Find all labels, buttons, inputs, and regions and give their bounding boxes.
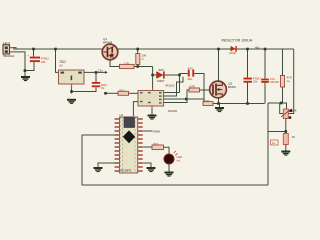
resistor R7 1K bbox=[271, 134, 296, 146]
wire pot bottom bbox=[285, 119, 287, 134]
wire 7812 output bbox=[84, 71, 105, 73]
wire R8 to LED bbox=[164, 147, 170, 154]
potentiometer RV1 bbox=[281, 108, 297, 118]
svg-text:12v: 12v bbox=[98, 69, 103, 73]
junction dot on rail bbox=[136, 48, 139, 51]
junction dot on rail bbox=[54, 48, 57, 51]
ground G8 bbox=[281, 151, 290, 156]
junction dots bbox=[246, 48, 249, 51]
wire U3 HO pin2 bbox=[164, 77, 183, 96]
wire Q2 drain up bbox=[218, 49, 220, 81]
junction dot bbox=[178, 74, 181, 77]
resistor R1 1.2K bbox=[120, 61, 135, 68]
junction dot bbox=[280, 102, 283, 105]
junction dot bbox=[185, 98, 188, 101]
capacitor C1 4700U plates bbox=[27, 54, 40, 63]
resistor R5 10R bbox=[203, 99, 213, 105]
wire U3 COM ground bbox=[151, 106, 153, 110]
wire Q1 collector down bbox=[110, 60, 120, 67]
svg-text:10K: 10K bbox=[292, 109, 297, 113]
ground G3 bbox=[148, 115, 157, 120]
capacitor C2 100U plates bbox=[92, 82, 100, 87]
svg-text:1K: 1K bbox=[292, 135, 296, 139]
wire cap C4 leads bbox=[247, 49, 249, 104]
wire feedback tap bbox=[268, 131, 286, 133]
LED D2 bbox=[164, 151, 183, 164]
wire cap C1 top lead bbox=[33, 49, 35, 57]
regulator U2 7812 bbox=[59, 60, 85, 84]
resistor R2 10K bbox=[136, 54, 147, 65]
wire U1 pwm stub bbox=[143, 130, 152, 132]
svg-text:100UH: 100UH bbox=[229, 51, 236, 55]
svg-text:U2: U2 bbox=[59, 64, 63, 68]
junction dot on rail bbox=[32, 48, 35, 51]
transistor Q1 bbox=[102, 37, 118, 60]
mosfet Q2 bbox=[210, 81, 237, 98]
wire diode cathode to cap bbox=[165, 74, 188, 76]
wire feedback long drop bbox=[267, 103, 269, 185]
wire U1 left gnd branch bbox=[98, 163, 115, 167]
svg-text:1k: 1k bbox=[272, 141, 276, 145]
junction dot bbox=[95, 71, 98, 74]
junction dot bbox=[24, 69, 27, 72]
capacitor C4 4700U plates bbox=[244, 77, 261, 84]
wire node down to U3 vcc bbox=[152, 67, 154, 89]
wire U3 VS pin3 bbox=[164, 98, 204, 100]
svg-text:PWM: PWM bbox=[153, 130, 161, 134]
svg-text:TBLOCK-I2: TBLOCK-I2 bbox=[3, 55, 15, 58]
junction dot bbox=[217, 102, 220, 105]
wire cap C2 branch bbox=[72, 87, 97, 91]
wire U1 to R8 bbox=[143, 146, 152, 148]
wire cap C1 bottom link bbox=[25, 62, 34, 70]
microcontroller U1 bbox=[120, 113, 138, 173]
junction dot bbox=[136, 65, 139, 68]
wire U3 vcc stub bbox=[152, 88, 154, 91]
wire main top rail bbox=[13, 48, 294, 50]
wire R1 to node bbox=[134, 66, 153, 68]
capacitor C3 47U plates bbox=[187, 66, 194, 81]
wire gate to Q2 bbox=[200, 89, 211, 91]
U1 left pins bbox=[115, 118, 120, 172]
junction dot on rail bbox=[217, 48, 220, 51]
wire 7812 input drop bbox=[56, 49, 59, 72]
svg-text:LED: LED bbox=[177, 155, 184, 159]
svg-text:IR2103: IR2103 bbox=[168, 109, 177, 113]
svg-text:1N4007: 1N4007 bbox=[157, 79, 165, 83]
wire rail right corner down bbox=[288, 49, 293, 114]
resistor R6 47K bbox=[281, 76, 292, 88]
ground G6 bbox=[165, 172, 174, 177]
svg-text:U1: U1 bbox=[120, 113, 124, 117]
wire diode anode bbox=[153, 74, 157, 76]
wire U3 LO pin4 to gate resistor bbox=[164, 90, 189, 103]
resistor R3 2K2 bbox=[118, 88, 129, 95]
svg-text:40v: 40v bbox=[255, 45, 260, 49]
wire 10R left lead bbox=[203, 99, 205, 102]
svg-text:1w: 1w bbox=[287, 80, 290, 83]
svg-text:+: + bbox=[27, 54, 29, 58]
wire bottom loop bbox=[82, 135, 268, 185]
wire input top pin to rail bbox=[13, 48, 16, 49]
wire Q2 source down bbox=[218, 98, 220, 104]
wire U1 right gnd branch bbox=[143, 163, 151, 167]
node label 12v bbox=[105, 71, 108, 74]
svg-text:INDUCTOR 100UH: INDUCTOR 100UH bbox=[222, 38, 253, 42]
U1 logo diamond bbox=[123, 130, 135, 143]
wire U3 VB pin1 bbox=[164, 92, 180, 94]
U1 pin number strips bbox=[120, 118, 122, 172]
U1 notch block bbox=[124, 117, 135, 128]
ground G1 bbox=[21, 76, 30, 81]
gate driver U3 IR2103 bbox=[138, 83, 177, 113]
wire cap C5 leads bbox=[264, 49, 266, 104]
connector J1 INPUT bbox=[3, 42, 15, 59]
wire VB riser bbox=[179, 75, 181, 93]
svg-text:4007: 4007 bbox=[158, 68, 164, 72]
wire 10K leads bbox=[137, 49, 139, 67]
svg-text:IR2103: IR2103 bbox=[166, 83, 175, 87]
resistor R8 2K2 bbox=[152, 142, 164, 150]
ground G5 bbox=[147, 167, 156, 172]
junction dot diode tap bbox=[151, 74, 154, 77]
svg-text:IRFZ44: IRFZ44 bbox=[228, 85, 236, 89]
U1 right pins bbox=[138, 118, 143, 172]
svg-text:PIC16F72: PIC16F72 bbox=[121, 168, 132, 172]
wire U3 HIN left bbox=[129, 92, 139, 94]
resistor R4 4.7R bbox=[189, 84, 200, 92]
wire feedback node bbox=[268, 103, 287, 109]
ground G2 bbox=[67, 99, 76, 104]
ground G7 bbox=[215, 104, 224, 113]
wire 7812 ground pin bbox=[71, 84, 73, 89]
junction dot bbox=[285, 130, 288, 133]
svg-text:CAP DISC: CAP DISC bbox=[270, 81, 280, 84]
junction dot bbox=[70, 90, 73, 93]
wire LED to ground bbox=[168, 164, 170, 171]
svg-text:Q1: Q1 bbox=[103, 37, 107, 41]
wire input bottom pin down to ground bbox=[13, 52, 25, 76]
wire U3 LIN left down bbox=[133, 102, 138, 116]
diode D1 4007 bbox=[157, 68, 165, 83]
capacitor C5 104 plates bbox=[261, 77, 279, 84]
wire R3 left end bbox=[106, 92, 119, 94]
svg-text:red: red bbox=[177, 160, 181, 163]
junction dot bbox=[104, 92, 107, 95]
wire cap C3 right lead down bbox=[194, 74, 204, 100]
inductor L1 bbox=[229, 46, 237, 55]
junction dot bbox=[264, 48, 267, 51]
wire 1K bottom bbox=[285, 145, 287, 151]
wire ground bus bbox=[213, 103, 265, 105]
wire wiper link bbox=[280, 103, 284, 114]
ground G4 bbox=[94, 167, 103, 172]
wire cap C2 top lead bbox=[95, 72, 97, 82]
wire 47K leads bbox=[282, 49, 284, 103]
